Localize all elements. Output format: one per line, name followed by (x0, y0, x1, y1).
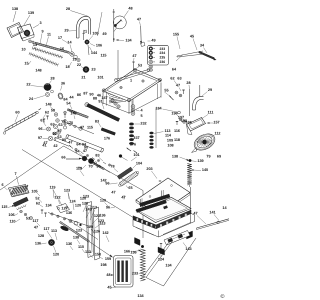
svg-text:122: 122 (94, 214, 100, 218)
svg-text:109: 109 (167, 139, 173, 143)
washers 147 left (111, 99, 114, 102)
svg-text:28: 28 (186, 81, 190, 85)
leader web 3 (59, 200, 62, 207)
svg-text:45: 45 (190, 35, 194, 39)
svg-text:83: 83 (95, 154, 99, 158)
dark roller in gearbox (24, 30, 30, 36)
svg-text:134: 134 (125, 39, 132, 43)
ring 36 (57, 92, 63, 99)
svg-text:62: 62 (45, 111, 49, 115)
svg-text:21: 21 (81, 76, 85, 80)
svg-text:70: 70 (88, 165, 92, 169)
svg-text:176: 176 (104, 137, 110, 141)
grille 6 (9, 185, 30, 197)
svg-text:113: 113 (91, 206, 97, 210)
spring 233 (140, 249, 145, 281)
small parts 196/197 (179, 118, 182, 121)
pivot dot 139 (189, 159, 192, 162)
frame legs (102, 93, 104, 105)
small dark block on carriage (163, 205, 168, 209)
svg-text:114: 114 (165, 134, 172, 138)
leader web 16 (99, 257, 103, 260)
svg-text:42: 42 (53, 144, 57, 148)
carriage top face (136, 198, 191, 223)
svg-text:87: 87 (83, 92, 87, 96)
svg-text:120: 120 (53, 253, 59, 257)
svg-text:136: 136 (66, 211, 72, 215)
washers below legend (149, 65, 153, 68)
under-base outline (133, 213, 195, 237)
svg-text:47: 47 (176, 84, 180, 88)
svg-text:134: 134 (165, 264, 172, 268)
svg-text:120: 120 (75, 204, 81, 208)
svg-text:48: 48 (128, 7, 132, 11)
svg-text:148: 148 (45, 103, 51, 107)
svg-text:115: 115 (1, 205, 7, 209)
side panel 136 (94, 207, 100, 260)
svg-text:142: 142 (102, 231, 108, 235)
bar 65 (119, 172, 138, 187)
svg-text:16: 16 (60, 47, 64, 51)
rod 110 (68, 220, 98, 240)
svg-text:127: 127 (61, 207, 67, 211)
dark roller 176 (101, 128, 115, 135)
svg-text:140: 140 (202, 168, 208, 172)
svg-text:63: 63 (177, 77, 181, 81)
svg-text:147: 147 (101, 96, 107, 100)
svg-text:1: 1 (130, 79, 132, 83)
stand diagonal 2 (164, 238, 197, 286)
svg-text:203: 203 (146, 167, 152, 171)
svg-text:22: 22 (77, 63, 81, 67)
spring 140 (187, 164, 192, 186)
svg-text:123: 123 (83, 195, 89, 199)
svg-text:65: 65 (128, 186, 132, 190)
svg-text:134: 134 (45, 204, 52, 208)
leader web 5 (83, 206, 86, 213)
handle 29 right (192, 96, 203, 110)
dark roller small (60, 225, 69, 231)
threaded shaft 17 (35, 42, 69, 53)
screw 97 (48, 136, 53, 141)
infeed roller 50 (56, 138, 71, 144)
svg-text:45: 45 (107, 286, 111, 290)
small parts under grille (20, 210, 23, 213)
svg-text:41: 41 (42, 144, 46, 148)
leader web 15 (89, 254, 93, 258)
svg-text:118: 118 (174, 138, 180, 142)
svg-text:101: 101 (133, 153, 139, 157)
rod 47b (140, 26, 143, 44)
svg-text:3: 3 (39, 21, 41, 25)
svg-text:49: 49 (151, 39, 155, 43)
svg-text:139: 139 (197, 159, 203, 163)
screw 47e (133, 62, 135, 70)
svg-text:117: 117 (32, 219, 38, 223)
svg-text:53: 53 (138, 64, 142, 68)
svg-text:106: 106 (8, 213, 14, 217)
svg-text:28: 28 (50, 77, 54, 81)
svg-text:19: 19 (72, 58, 76, 62)
leader web 9 (95, 223, 102, 228)
svg-text:148: 148 (70, 112, 76, 116)
foot screw mid (160, 244, 162, 252)
panel 48 (114, 256, 134, 288)
long rod 47 top (113, 9, 115, 42)
threaded rod 54 (67, 109, 88, 118)
svg-text:60: 60 (15, 111, 19, 115)
svg-text:113: 113 (164, 129, 170, 133)
boundary top-right edge (64, 146, 144, 191)
bell crank 127 (57, 204, 70, 213)
svg-text:184: 184 (155, 107, 162, 111)
svg-text:106: 106 (96, 44, 102, 48)
svg-text:52: 52 (35, 197, 39, 201)
leader web 19 (105, 203, 109, 207)
svg-text:83: 83 (95, 120, 99, 124)
svg-text:47: 47 (34, 226, 38, 230)
svg-text:108: 108 (181, 119, 187, 123)
svg-text:119: 119 (49, 186, 55, 190)
small dark bits (82, 156, 87, 161)
boundary line D2 (0, 146, 64, 190)
svg-text:105: 105 (92, 32, 98, 36)
svg-text:138: 138 (73, 236, 79, 240)
svg-text:91: 91 (98, 100, 102, 104)
base foot left (135, 238, 141, 246)
pin 21 (83, 34, 85, 40)
vert guide rod left (117, 50, 119, 79)
washer 24 (45, 92, 49, 96)
leader 83b (99, 158, 103, 162)
screw 55 (170, 97, 174, 101)
pivot dot 166 (141, 245, 144, 248)
svg-text:96: 96 (106, 206, 110, 210)
svg-text:48: 48 (106, 273, 110, 277)
legend row 236 (149, 60, 153, 63)
svg-text:58: 58 (51, 109, 55, 113)
svg-text:28: 28 (66, 7, 70, 11)
side panel 111 (187, 118, 206, 132)
svg-text:86: 86 (77, 93, 81, 97)
svg-text:96: 96 (38, 127, 42, 131)
spring on rod (69, 109, 75, 114)
svg-text:47: 47 (121, 196, 125, 200)
svg-text:120: 120 (100, 199, 106, 203)
svg-text:17: 17 (58, 36, 62, 40)
svg-text:5: 5 (140, 114, 142, 118)
leader web 18 (91, 229, 95, 234)
svg-text:29: 29 (64, 29, 68, 33)
cluster screws upper (70, 146, 73, 149)
svg-text:123: 123 (76, 229, 82, 233)
svg-text:6: 6 (1, 183, 3, 187)
rod 28 right (189, 89, 191, 116)
leader 129 (92, 229, 95, 233)
leader web 6 (86, 212, 90, 219)
svg-text:23: 23 (91, 68, 95, 72)
leader 101b (131, 157, 137, 161)
svg-text:88: 88 (93, 97, 97, 101)
svg-text:128: 128 (38, 234, 44, 238)
bracket 49 (141, 42, 146, 47)
leader web 13 (70, 246, 73, 250)
detail balloon 48 (113, 16, 126, 29)
frame base 1 outer (103, 69, 161, 102)
long rod 170 (61, 121, 94, 134)
svg-text:47: 47 (111, 191, 115, 195)
svg-text:148: 148 (35, 69, 41, 73)
svg-text:129: 129 (87, 225, 93, 229)
svg-text:©: © (221, 294, 225, 300)
hatched stub rod (92, 162, 104, 170)
knob 23 (44, 83, 51, 90)
carriage front-right band (156, 210, 191, 229)
svg-text:104: 104 (136, 162, 143, 166)
fastener column 65x (64, 111, 67, 114)
svg-text:123: 123 (64, 189, 70, 193)
svg-text:63: 63 (58, 123, 62, 127)
svg-text:47: 47 (193, 212, 197, 216)
carriage front-left band (133, 216, 156, 229)
stack 4/5 (131, 105, 135, 109)
svg-text:126: 126 (94, 230, 100, 234)
washers left column (54, 113, 58, 117)
spring 116 (17, 205, 27, 211)
svg-text:22: 22 (26, 83, 30, 87)
svg-text:47: 47 (132, 54, 136, 58)
svg-text:136: 136 (99, 214, 105, 218)
svg-text:234: 234 (160, 51, 166, 55)
svg-text:101: 101 (97, 76, 103, 80)
threaded rod 150 (60, 221, 90, 242)
leader web label66 line (66, 159, 80, 161)
leader web 12 (77, 240, 80, 245)
leader web 4 (73, 204, 74, 211)
screw cross small (53, 132, 56, 135)
svg-text:236: 236 (160, 60, 166, 64)
svg-text:166: 166 (124, 250, 130, 254)
small bolt a (43, 118, 45, 120)
svg-text:134: 134 (137, 294, 144, 298)
boundary line D1 (22, 150, 143, 224)
svg-text:139: 139 (28, 11, 34, 15)
svg-text:63: 63 (50, 123, 54, 127)
svg-text:97: 97 (38, 136, 42, 140)
leader web 10 (47, 231, 52, 239)
feed roller on carriage 2 (136, 200, 166, 212)
cutterhead 91 dark (87, 104, 120, 122)
svg-text:119: 119 (76, 167, 82, 171)
vert line right of frame (155, 108, 157, 148)
svg-text:49: 49 (102, 32, 106, 36)
pulley 22 dark (83, 67, 89, 73)
svg-text:122: 122 (54, 196, 60, 200)
scale pointer 34/45 (177, 51, 203, 56)
svg-text:66: 66 (61, 156, 65, 160)
drive gear 18/19 (70, 52, 74, 56)
svg-text:29: 29 (208, 88, 212, 92)
svg-text:136: 136 (35, 242, 41, 246)
leader web 7 (90, 210, 95, 221)
dark dot 101 (119, 155, 122, 158)
svg-text:136: 136 (130, 251, 136, 255)
post to table right (161, 191, 163, 200)
svg-text:159: 159 (105, 257, 111, 261)
svg-text:10: 10 (21, 48, 25, 52)
svg-text:235: 235 (160, 56, 166, 60)
svg-text:79: 79 (206, 155, 210, 159)
fan shroud 112 (191, 131, 217, 154)
stand crossbar (146, 278, 164, 287)
svg-text:47: 47 (80, 126, 84, 130)
side panel 120 (86, 202, 94, 258)
table screws (159, 180, 161, 182)
svg-text:150: 150 (95, 253, 101, 257)
rod 105 vertical (88, 45, 89, 55)
leader web 14 (82, 249, 85, 253)
feed roller on carriage 1 (140, 194, 170, 206)
svg-text:47: 47 (68, 141, 72, 145)
leader web 8 (92, 218, 98, 224)
svg-text:113: 113 (51, 229, 57, 233)
cover plate 139 (7, 23, 24, 38)
spiked feed roller 13 (33, 48, 64, 58)
spiked feed roller 15 (30, 54, 59, 66)
svg-text:78: 78 (110, 165, 114, 169)
svg-text:7: 7 (14, 172, 16, 176)
frame corner posts (102, 89, 105, 92)
svg-text:116: 116 (174, 129, 180, 133)
frame cross beam (116, 70, 149, 80)
svg-text:128: 128 (82, 202, 88, 206)
svg-text:47: 47 (137, 18, 141, 22)
svg-text:123: 123 (98, 219, 104, 223)
leader 119b (80, 171, 84, 177)
svg-text:111: 111 (208, 111, 214, 115)
frame teeth row (108, 93, 110, 95)
hatched roller 115 (13, 197, 28, 207)
leader 78 (114, 169, 118, 173)
svg-text:142: 142 (100, 179, 106, 183)
link rod (48, 213, 90, 227)
svg-text:36: 36 (61, 82, 65, 86)
svg-text:53: 53 (52, 132, 56, 136)
outfeed roller 94 (68, 135, 103, 149)
table 203 (136, 178, 190, 215)
svg-text:13: 13 (33, 43, 37, 47)
small parts right (175, 91, 178, 94)
leader web 20 (37, 223, 41, 227)
bracket 143 (164, 231, 190, 246)
svg-text:198: 198 (100, 263, 106, 267)
svg-text:108: 108 (167, 144, 173, 148)
leader web 11 (55, 233, 57, 240)
svg-text:69: 69 (217, 155, 221, 159)
svg-text:18: 18 (65, 65, 69, 69)
svg-text:11: 11 (47, 33, 51, 37)
stand diagonal 1 (144, 240, 171, 276)
svg-text:237: 237 (133, 136, 139, 140)
leader web 17 (106, 236, 109, 243)
small bolt b (46, 115, 48, 117)
svg-text:196: 196 (171, 112, 177, 116)
svg-text:136: 136 (66, 242, 72, 246)
svg-text:138: 138 (12, 7, 18, 11)
boundary right vertical (142, 191, 144, 239)
rod 141 (197, 219, 230, 228)
post to table left (139, 199, 141, 207)
svg-text:110: 110 (78, 245, 84, 249)
svg-text:141: 141 (209, 211, 215, 215)
svg-text:110: 110 (9, 220, 15, 224)
svg-text:157: 157 (213, 121, 219, 125)
svg-text:138: 138 (172, 155, 178, 159)
pulley dark bottom (48, 239, 54, 245)
leader web 1 (53, 190, 58, 200)
svg-text:170: 170 (67, 121, 73, 125)
frame base 1 inner (107, 72, 158, 99)
ladder rail 60 (5, 115, 36, 132)
svg-text:117: 117 (43, 227, 49, 231)
svg-text:115: 115 (87, 126, 93, 130)
svg-text:21: 21 (83, 30, 87, 34)
screw inside balloon (115, 20, 121, 26)
svg-text:47: 47 (83, 149, 87, 153)
dark washer stack 2 (150, 132, 154, 134)
dark washer stack 237 (129, 123, 133, 126)
screw 96 (47, 127, 51, 131)
svg-text:155: 155 (173, 33, 179, 37)
base foot right (187, 231, 193, 239)
svg-text:105: 105 (31, 190, 37, 194)
carry handle 28 left (77, 16, 91, 38)
post under spring 140 (189, 187, 191, 223)
svg-text:112: 112 (214, 132, 220, 136)
svg-text:232: 232 (140, 122, 146, 126)
svg-text:113: 113 (85, 250, 91, 254)
leader 47top (98, 12, 103, 36)
leader 70 (92, 163, 95, 167)
svg-text:115: 115 (100, 54, 106, 58)
legend row 235 (149, 55, 153, 59)
leader web 2 (68, 193, 70, 201)
dark nut 105 (85, 40, 89, 44)
base foot mid (158, 247, 165, 255)
legend row 234 (149, 51, 153, 55)
svg-text:9: 9 (41, 30, 43, 34)
svg-text:62: 62 (170, 77, 174, 81)
legend row 233 (149, 47, 153, 51)
legend box (148, 45, 169, 65)
svg-text:62: 62 (36, 202, 40, 206)
svg-text:55: 55 (164, 89, 168, 93)
anti-kick fingers 104 (117, 167, 132, 179)
gearbox housing 3 (18, 24, 35, 39)
rod 29 right (199, 85, 201, 97)
